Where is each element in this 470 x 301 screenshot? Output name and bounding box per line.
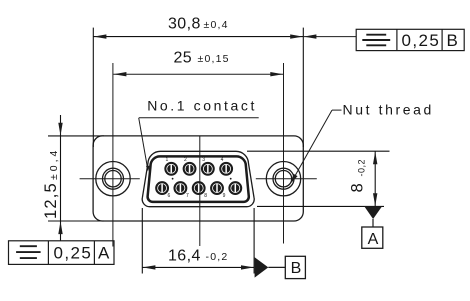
D-shell outer outline: [142, 151, 254, 206]
svg-text:Nut thread: Nut thread: [343, 101, 434, 117]
contact 2: [184, 163, 196, 175]
dimension 30.8 left arrowhead: [94, 34, 107, 38]
contact 5: [156, 182, 168, 194]
svg-text:3: 3: [202, 157, 205, 163]
svg-text:B: B: [291, 260, 302, 277]
contact 9: [229, 182, 241, 194]
leader line to nut thread: [295, 110, 333, 177]
connector body flange (rounded rectangle): [93, 136, 303, 221]
leader arrowhead at nut thread: [291, 174, 298, 184]
left hole vertical centerline / extension line for 25: [112, 63, 114, 247]
horizontal centerline (right segment): [256, 178, 317, 180]
leader line to contact 1: [139, 118, 148, 169]
contact 8: [211, 182, 223, 194]
svg-text:-0,2: -0,2: [357, 159, 367, 177]
dimension 12.5 bottom arrowhead (outside, pointing up): [58, 221, 62, 234]
svg-text:2: 2: [184, 157, 187, 163]
dimension 25 right arrowhead: [270, 72, 283, 76]
svg-text:B: B: [447, 31, 460, 50]
svg-text:-0,2: -0,2: [206, 251, 229, 263]
svg-text:6: 6: [168, 193, 171, 199]
svg-text:±0,15: ±0,15: [198, 53, 230, 65]
datum B box: [285, 256, 305, 278]
dimension 30.8 right arrowhead: [290, 34, 303, 38]
svg-text:A: A: [368, 231, 379, 248]
contact 7: [193, 182, 205, 194]
feature control frame bottom-left (0,25 A): [9, 241, 115, 265]
datum B triangle: [255, 257, 269, 277]
leader arrowhead at extension line: [304, 34, 317, 38]
svg-text:±0,4: ±0,4: [204, 19, 229, 31]
svg-text:1: 1: [166, 157, 169, 163]
dimension 30.8 extension and dimension lines: [93, 28, 303, 147]
datum A box: [362, 227, 383, 248]
dimension 12.5 top arrowhead (outside, pointing down): [58, 123, 62, 136]
horizontal centerline (left segment): [80, 178, 140, 180]
svg-text:A: A: [98, 243, 111, 262]
dimension 25 line: [113, 73, 283, 75]
svg-text:30,8: 30,8: [168, 16, 201, 33]
leader line to tolerance frame B: [303, 36, 356, 38]
dimension 8 bottom arrowhead: [373, 193, 377, 206]
central vertical centerline: [199, 136, 201, 246]
dimension 25 left arrowhead: [114, 72, 127, 76]
svg-text:16,4: 16,4: [168, 247, 201, 264]
svg-text:No.1 contact: No.1 contact: [147, 98, 257, 114]
datum A triangle: [364, 206, 382, 219]
svg-text:9: 9: [223, 193, 226, 199]
svg-text:12,5: 12,5: [42, 182, 60, 219]
dimension 16.4 left arrowhead: [143, 265, 156, 269]
dimension 16.4 extension and dimension lines: [142, 208, 254, 274]
svg-text:8: 8: [349, 182, 367, 192]
svg-text:0,25: 0,25: [402, 31, 441, 50]
right hole vertical centerline / extension line for 25: [283, 63, 285, 244]
svg-text:0,25: 0,25: [54, 243, 93, 262]
datum A stem: [372, 219, 374, 228]
label underline: [139, 117, 259, 119]
D-shell inner thick outline: [148, 156, 249, 202]
dimension 16.4 right arrowhead: [241, 265, 254, 269]
contact 3: [202, 163, 214, 175]
center mark dot right: [230, 178, 232, 180]
contact 6: [175, 182, 187, 194]
svg-text:±0,4: ±0,4: [48, 148, 60, 180]
label dash: [332, 109, 342, 111]
svg-text:25: 25: [174, 50, 193, 67]
dimension 8 top arrowhead: [373, 152, 377, 165]
feature control frame top-right (0,25 B): [356, 29, 464, 50]
contact 1: [165, 163, 177, 175]
svg-text:7: 7: [186, 193, 189, 199]
leader arrowhead at contact 1: [146, 166, 150, 172]
center mark dot left: [172, 178, 174, 180]
svg-text:4: 4: [221, 157, 224, 163]
datum B stem: [268, 266, 285, 268]
dimension 12.5 extension and dimension lines: [48, 115, 104, 241]
right mounting hole with nut thread (3 concentric circles): [266, 162, 300, 196]
dimension 8 extension and dimension lines: [247, 151, 390, 206]
left mounting hole (3 concentric circles): [96, 162, 130, 196]
contact 4: [220, 163, 232, 175]
svg-text:8: 8: [204, 193, 207, 199]
